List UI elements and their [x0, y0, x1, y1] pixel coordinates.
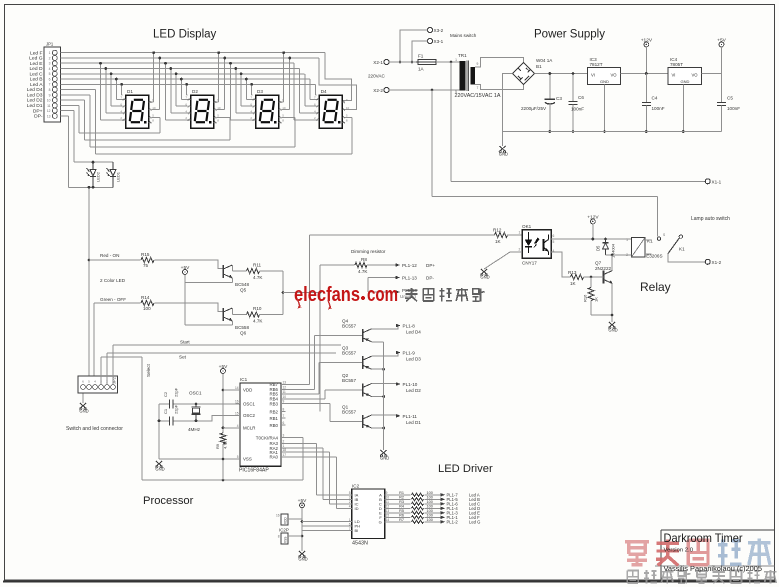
svg-text:Green - OFF: Green - OFF: [100, 297, 126, 302]
svg-text:1: 1: [349, 518, 351, 522]
svg-text:BI: BI: [355, 528, 359, 533]
svg-text:PL1-2: PL1-2: [447, 519, 459, 524]
svg-text:LED1: LED1: [116, 171, 121, 182]
svg-text:VSS: VSS: [243, 457, 252, 462]
relay coil K1 E3206S: [626, 238, 662, 259]
svg-text:Led D4: Led D4: [27, 87, 43, 93]
svg-text:4543N: 4543N: [352, 541, 368, 547]
svg-text:11: 11: [283, 390, 287, 394]
svg-text:K1: K1: [647, 239, 653, 244]
wire bus line 5 drop to D4: [304, 74, 306, 106]
svg-text:6: 6: [49, 77, 51, 81]
svg-text:10: 10: [346, 106, 350, 110]
relay contact stubs: [645, 239, 652, 241]
wire OK1 pin5 to relay coil: [551, 238, 632, 240]
svg-text:DP+: DP+: [426, 263, 435, 268]
wire bus line 7 drop to D1: [121, 84, 123, 95]
wire bus line 5 drop to D1: [110, 74, 112, 106]
connector JP1: [44, 47, 61, 122]
ground symbol power supply: [501, 132, 503, 147]
resistor R11 4.7K: [247, 268, 260, 273]
svg-text:7: 7: [477, 86, 479, 90]
svg-text:X2-2: X2-2: [373, 88, 383, 93]
ground symbol IC2: [299, 551, 305, 557]
svg-text:9: 9: [386, 491, 388, 495]
svg-text:2: 2: [49, 56, 51, 60]
svg-text:R15: R15: [141, 252, 150, 257]
wire R11 to junction: [260, 270, 284, 272]
wire emitter rail to ground: [383, 342, 385, 450]
svg-text:BC557: BC557: [342, 378, 356, 383]
resistor R15 75: [89, 259, 141, 261]
wire bus line 2 drop to D3 right: [289, 58, 291, 110]
resistor R1 100 and net PL1-7: [389, 494, 411, 496]
wire Q6 collector to R10: [231, 308, 233, 315]
svg-text:5: 5: [553, 240, 555, 244]
svg-text:PL1-9: PL1-9: [403, 351, 416, 356]
svg-text:10: 10: [283, 395, 287, 399]
svg-text:8: 8: [283, 408, 285, 412]
svg-text:GND: GND: [681, 79, 690, 84]
svg-text:PL1-13: PL1-13: [402, 276, 417, 281]
terminal X1-1: [705, 179, 710, 184]
wire JP1 pin 1 bus line (Led F): [61, 52, 326, 54]
svg-text:T0CKI/RA4: T0CKI/RA4: [256, 435, 279, 440]
wire fuse to TR1 primary: [436, 61, 460, 63]
svg-text:X3-2: X3-2: [434, 28, 444, 33]
wire JP2 pin1 to ground: [82, 394, 84, 404]
connector JP2: [78, 376, 118, 393]
svg-text:PL1-12: PL1-12: [402, 263, 417, 268]
wire Q4 emitter to rail: [372, 341, 384, 343]
svg-text:Led B: Led B: [30, 77, 43, 83]
svg-text:100: 100: [427, 518, 433, 522]
wire JP1 pin 2 bus line (Led G): [61, 57, 319, 59]
wire JP1 pin 3 bus line (Led E): [61, 62, 295, 64]
svg-text:100: 100: [143, 306, 151, 311]
wire Q2 emitter to rail: [372, 396, 384, 398]
svg-text:IC2: IC2: [352, 484, 360, 489]
crystal OSC1 4MHz: [195, 404, 197, 407]
capacitor C4 100nF: [645, 74, 647, 103]
svg-text:C3: C3: [556, 96, 562, 101]
wire Q1 collector to PL1-11: [372, 414, 398, 417]
svg-text:6: 6: [283, 421, 285, 425]
switch K1 lamp contact: [657, 233, 685, 254]
svg-text:2 Color LED: 2 Color LED: [100, 278, 126, 283]
svg-text:15: 15: [386, 514, 390, 518]
terminal X3-2: [428, 28, 433, 33]
capacitor C6 100nF: [572, 74, 574, 102]
ground symbol Q7: [609, 322, 615, 328]
svg-text:DP-: DP-: [34, 114, 43, 120]
svg-text:R2: R2: [399, 496, 404, 500]
wire JP1 pin 9 (Led D3) digit line: [61, 94, 90, 96]
svg-text:11: 11: [386, 500, 390, 504]
svg-text:Power Supply: Power Supply: [534, 29, 605, 41]
wire JP1 pin 11 (Led D1) digit line: [61, 104, 80, 106]
wire TR1 secondary top to bridge: [475, 57, 524, 67]
wire Q5 collector to R11: [231, 265, 233, 271]
svg-text:7812T: 7812T: [590, 62, 603, 67]
svg-text:TR1: TR1: [458, 53, 467, 58]
svg-text:R5: R5: [399, 509, 404, 513]
svg-text:Set: Set: [179, 355, 187, 360]
svg-text:G: G: [379, 519, 382, 524]
wire bus line 1 drop to D3 right: [283, 53, 285, 102]
svg-text:CNY17: CNY17: [522, 261, 537, 266]
svg-text:VDD: VDD: [284, 517, 288, 524]
wire TR1 secondary bottom to bridge: [475, 85, 524, 90]
svg-text:100: 100: [427, 514, 433, 518]
svg-text:Dimming resistor: Dimming resistor: [351, 249, 386, 254]
svg-text:MCLR: MCLR: [243, 426, 255, 431]
resistor R4 100 and net PL1-4: [389, 507, 411, 509]
capacitor C3 2200uF: [549, 74, 551, 100]
svg-text:GND: GND: [499, 152, 508, 157]
svg-text:JP2: JP2: [112, 376, 117, 384]
svg-text:14: 14: [386, 518, 390, 522]
svg-text:100: 100: [427, 500, 433, 504]
svg-text:4: 4: [237, 424, 239, 428]
svg-text:W04 1A: W04 1A: [536, 58, 553, 63]
svg-text:6: 6: [82, 380, 84, 384]
svg-text:Led G: Led G: [469, 519, 480, 524]
resistor R10 4.7K: [247, 312, 260, 317]
svg-text:100: 100: [427, 496, 433, 500]
wire Q2 base from IC1: [281, 398, 325, 400]
svg-text:R6: R6: [399, 514, 404, 518]
svg-text:1: 1: [626, 238, 628, 242]
svg-text:RB2: RB2: [269, 409, 278, 414]
wire VDD box to +5V: [288, 518, 302, 520]
wire bus line 7 drop to D4: [314, 84, 316, 95]
svg-text:75: 75: [143, 263, 149, 268]
transistor Q5 BC548: [222, 265, 224, 278]
wire R10 to junction: [260, 314, 284, 316]
optocoupler OK1 CNY17: [522, 224, 551, 266]
svg-text:Led D: Led D: [29, 66, 43, 72]
svg-text:F1: F1: [418, 54, 424, 59]
svg-text:22pF: 22pF: [174, 404, 179, 414]
svg-text:3: 3: [49, 62, 51, 66]
svg-text:Led D4: Led D4: [406, 330, 421, 335]
svg-text:13: 13: [47, 114, 51, 118]
wire Q7 collector: [611, 255, 613, 271]
svg-text:Red - ON: Red - ON: [100, 253, 119, 258]
ground symbol OK1: [481, 269, 487, 275]
regulator IC3 7812T: [588, 57, 621, 85]
svg-text:D5: D5: [596, 245, 601, 251]
svg-text:22pF: 22pF: [174, 387, 179, 397]
svg-text:16: 16: [276, 514, 280, 518]
seven-segment display D2: [185, 89, 221, 128]
svg-text:Select: Select: [146, 364, 151, 377]
wire bus line 6 drop to D2: [180, 79, 182, 99]
svg-text:Led D3: Led D3: [406, 357, 421, 362]
svg-text:R3: R3: [399, 500, 404, 504]
svg-text:100: 100: [427, 509, 433, 513]
svg-text:12: 12: [386, 505, 390, 509]
resistor R12 1K: [495, 232, 508, 237]
wire OK1 pin2 to ground: [510, 251, 522, 253]
svg-text:2: 2: [519, 248, 521, 252]
svg-text:9: 9: [283, 400, 285, 404]
wire bus line 1 drop to D2 right: [218, 53, 220, 102]
svg-text:7: 7: [49, 83, 51, 87]
ground symbol LED drivers: [380, 450, 386, 456]
capacitor C2 22pF: [169, 400, 171, 409]
wire Set: [106, 353, 108, 384]
svg-text:4.7K: 4.7K: [253, 275, 263, 280]
ground symbol JP2: [80, 403, 86, 409]
resistor R2 100 and net PL1-5: [389, 498, 411, 500]
wire Select: [100, 357, 102, 384]
svg-text:2: 2: [283, 439, 285, 443]
wire IC1 RA to IC2 input: [281, 456, 336, 458]
wire bus line 3 drop to D2: [165, 63, 167, 120]
wire Q1 base from IC1: [281, 403, 330, 405]
svg-text:OSC2: OSC2: [243, 413, 256, 418]
svg-text:Processor: Processor: [143, 495, 194, 507]
wire bus line 7 drop to D2: [186, 84, 188, 95]
fuse F1: [389, 61, 418, 63]
svg-text:5: 5: [349, 491, 351, 495]
svg-text:Start: Start: [180, 340, 190, 345]
svg-text:BC558: BC558: [235, 325, 249, 330]
svg-text:BC557: BC557: [342, 410, 356, 415]
svg-text:GND: GND: [380, 456, 389, 461]
svg-text:10: 10: [386, 496, 390, 500]
terminal X1-2: [705, 259, 710, 264]
svg-text:7: 7: [349, 527, 351, 531]
wire IC3 GND to rail: [604, 85, 606, 132]
svg-text:R7: R7: [399, 518, 404, 522]
wire JP1 pin 8 (Led D4) digit line: [61, 89, 96, 91]
svg-text:C6: C6: [578, 95, 584, 100]
svg-text:Led D2: Led D2: [406, 388, 421, 393]
seven-segment display D4: [314, 89, 350, 128]
svg-text:15: 15: [235, 412, 239, 416]
svg-text:12: 12: [283, 385, 287, 389]
svg-text:LED Display: LED Display: [153, 29, 217, 41]
svg-text:1K: 1K: [495, 239, 502, 244]
diode D5 1N4004: [605, 239, 607, 242]
svg-text:Q7: Q7: [595, 261, 602, 266]
svg-text:JP1: JP1: [46, 42, 54, 47]
IC IC1 PIC16F84AP: [235, 377, 286, 474]
wire bus line 4 drop to D2: [170, 69, 172, 114]
svg-text:4: 4: [94, 380, 96, 384]
svg-text:Version 2.0: Version 2.0: [664, 548, 694, 554]
wire Q3 collector to PL1-9: [372, 353, 398, 357]
svg-text:BC557: BC557: [342, 323, 356, 328]
svg-text:16: 16: [235, 400, 239, 404]
wire bus line 4 drop to D4: [299, 69, 301, 114]
wire VSS box to rail: [288, 535, 302, 537]
svg-text:4: 4: [49, 67, 51, 71]
wire PL1-14: [368, 291, 396, 293]
svg-text:LED Driver: LED Driver: [438, 463, 493, 475]
svg-text:220VAC/15VAC 1A: 220VAC/15VAC 1A: [455, 93, 501, 99]
wire JP1 pin 4 bus line (Led D): [61, 68, 300, 70]
svg-text:OSC1: OSC1: [243, 401, 256, 406]
wire VSS to ground: [159, 458, 240, 460]
svg-text:C4: C4: [652, 96, 658, 101]
wire junction to dimming net: [282, 291, 285, 294]
wire R13 to Q7 base: [584, 276, 604, 278]
svg-text:1: 1: [49, 51, 51, 55]
svg-text:7: 7: [283, 414, 285, 418]
seven-segment display D1: [120, 89, 156, 128]
wire IC4 GND to rail: [682, 85, 684, 132]
watermark shepin tianxian sheji zhuanjia gray characters: [627, 570, 776, 583]
wire Q5 emitter: [231, 278, 233, 282]
wire bus line 4 drop to D3: [235, 69, 237, 114]
wire Q3 emitter to rail: [372, 368, 384, 370]
title block box: [660, 530, 662, 581]
wire R12 to OK1 pin1: [507, 234, 522, 236]
wire X1-1: [451, 180, 705, 182]
svg-text:VSS: VSS: [284, 537, 288, 543]
svg-text:C2: C2: [163, 391, 168, 397]
wire IC4 out: [702, 73, 722, 75]
wire bus line 1 drop to D1 right: [153, 53, 155, 102]
wire IC1 RA to IC2 input: [281, 447, 323, 449]
wire R14 green to JP2: [93, 303, 95, 384]
svg-text:OK1: OK1: [522, 224, 532, 229]
wire JP1 pin 6 bus line (Led B): [61, 78, 310, 80]
svg-text:3: 3: [349, 496, 351, 500]
svg-text:11: 11: [47, 104, 51, 108]
wire live drop to X1-1: [450, 62, 452, 181]
resistor R14 100: [94, 302, 141, 304]
svg-text:GND: GND: [79, 409, 88, 414]
svg-text:IC2P: IC2P: [279, 528, 289, 533]
svg-text:VO: VO: [691, 73, 698, 78]
resistor R13 1K: [571, 274, 584, 279]
wire line1 hop to D4 right pin1: [325, 53, 352, 101]
svg-text:13: 13: [386, 509, 390, 513]
LED LED1: [112, 162, 114, 169]
svg-text:3: 3: [283, 434, 285, 438]
svg-text:Led D3: Led D3: [27, 92, 43, 98]
svg-text:DP+: DP+: [33, 108, 43, 114]
svg-text:220VAC: 220VAC: [368, 74, 385, 79]
transformer TR1: [455, 53, 501, 99]
wire bus line 2 drop to D2 right: [224, 58, 226, 110]
svg-text:2200µF/25V: 2200µF/25V: [521, 106, 547, 111]
resistor R7 100 and net PL1-2: [389, 521, 411, 523]
svg-text:Q5: Q5: [240, 288, 247, 293]
svg-text:6: 6: [553, 234, 555, 238]
wire PH: [302, 525, 348, 527]
seven-segment display D3: [250, 89, 286, 128]
wire OSC1 row: [159, 403, 240, 405]
capacitor C5 100nF: [721, 74, 723, 103]
svg-text:R16: R16: [583, 294, 588, 302]
svg-text:D3: D3: [257, 89, 263, 94]
svg-text:PL1-8: PL1-8: [403, 324, 416, 329]
wire bus line 2 drop to D1 right: [159, 58, 161, 110]
svg-text:D1: D1: [127, 89, 133, 94]
svg-text:Led F: Led F: [30, 50, 43, 56]
wire R15 to Q5 base: [155, 260, 223, 269]
svg-text:100nF: 100nF: [571, 107, 584, 112]
wire switch to X1-2: [668, 254, 705, 262]
capacitor C1 22pF: [169, 416, 171, 425]
svg-text:100nF: 100nF: [652, 106, 665, 111]
resistor R3 100 and net PL1-6: [389, 503, 411, 505]
svg-text:Led E: Led E: [30, 61, 44, 67]
svg-text:Led D1: Led D1: [406, 420, 421, 425]
wire JP1 pin 10 (Led D2) digit line: [61, 99, 85, 101]
wire neutral drop to lamp switch: [431, 90, 433, 197]
svg-text:Switch and led connector: Switch and led connector: [66, 426, 123, 432]
svg-text:5: 5: [88, 380, 90, 384]
wire JP1 pin 12 (DP+) to LED rail: [61, 110, 74, 112]
svg-text:14: 14: [235, 386, 239, 390]
svg-text:5: 5: [237, 455, 239, 459]
IC IC2 4543N: [348, 484, 390, 547]
svg-text:VDD: VDD: [243, 388, 252, 393]
svg-text:R10: R10: [253, 306, 262, 311]
ground rail power supply: [502, 131, 721, 133]
wire X3-1 to live: [412, 41, 428, 62]
wire bridge right positive rail: [535, 73, 588, 75]
svg-text:X2-1: X2-1: [373, 60, 383, 65]
svg-text:VI: VI: [591, 73, 595, 78]
wire Q2 collector to PL1-10: [372, 383, 398, 386]
watermark dianzi fashaoyou gray characters: [405, 288, 485, 301]
svg-text:BC557: BC557: [342, 351, 356, 356]
svg-text:9: 9: [477, 62, 479, 66]
svg-text:GND: GND: [600, 79, 609, 84]
wire line2 hop to D4 right pin2: [319, 58, 357, 110]
wire JP1 pin 5 bus line (Led C): [61, 73, 305, 75]
svg-text:R1: R1: [399, 491, 404, 495]
svg-text:100nF: 100nF: [727, 106, 740, 111]
svg-text:Mains switch: Mains switch: [450, 33, 477, 38]
svg-text:Relay: Relay: [640, 280, 671, 294]
svg-text:4: 4: [349, 505, 351, 509]
svg-text:2N2222: 2N2222: [595, 266, 612, 271]
wire +5V to MCLR: [223, 427, 236, 429]
svg-text:Led D1: Led D1: [27, 103, 43, 109]
svg-text:D2: D2: [192, 89, 198, 94]
svg-text:LED2: LED2: [96, 171, 101, 182]
svg-text:100: 100: [427, 505, 433, 509]
svg-text:1K: 1K: [594, 297, 599, 302]
svg-text:R4: R4: [399, 505, 404, 509]
svg-text:C5: C5: [727, 96, 733, 101]
svg-text:4.7K: 4.7K: [253, 319, 263, 324]
svg-text:2: 2: [349, 500, 351, 504]
wire RB7 to R12: [281, 383, 309, 385]
svg-text:6: 6: [349, 522, 351, 526]
wire relay coil bottom: [606, 254, 632, 256]
wire PL1-13: [368, 277, 396, 279]
transistor Q6 BC558: [222, 308, 224, 321]
svg-text:RB0: RB0: [269, 423, 278, 428]
svg-text:1K: 1K: [570, 281, 577, 286]
svg-text:Vassilis Papanikolaou (c)2005: Vassilis Papanikolaou (c)2005: [664, 564, 762, 573]
svg-text:10: 10: [47, 99, 51, 103]
wire Q1 emitter to rail: [372, 427, 384, 429]
resistor R5 100 and net PL1-3: [389, 512, 411, 514]
svg-text:PIC16F84AP: PIC16F84AP: [239, 468, 269, 474]
svg-text:8: 8: [49, 88, 51, 92]
